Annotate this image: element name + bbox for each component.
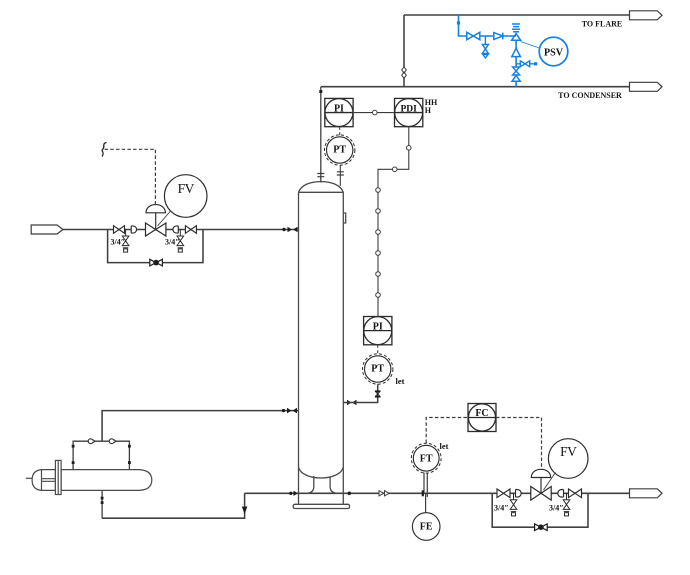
check symbols: reboiler top pipe <box>88 439 95 444</box>
wire: reboiler return riser <box>102 411 298 442</box>
pipe flag: to flare <box>630 11 663 20</box>
valve: blue angle lower <box>512 76 520 82</box>
valve: blue angle below PSV <box>512 48 521 56</box>
wire: PSV callout <box>521 42 540 49</box>
reducer: bottoms downstream D <box>558 490 564 498</box>
wire: PI to PDI link <box>353 112 394 114</box>
node: blue branch end cap <box>534 62 537 65</box>
instrument: FE flow element <box>412 513 440 541</box>
svg-text:H: H <box>425 106 432 115</box>
reducer: bottoms upstream D <box>516 490 522 498</box>
svg-text:let: let <box>396 376 405 386</box>
wire: FV bottoms callout <box>544 473 556 491</box>
wire: reboiler top nozzles and pipe <box>73 441 129 469</box>
valve: blue gate on branch <box>467 32 480 39</box>
node: circles on PDI link <box>376 146 411 298</box>
drain valve: feed 3/4 downstream <box>177 230 184 253</box>
wire: reboiler bottom nozzle <box>101 490 103 518</box>
valve: bottoms gate downstream <box>569 489 582 498</box>
blue relief piping <box>459 15 517 87</box>
svg-text:TO FLARE: TO FLARE <box>582 20 623 29</box>
drain valve: feed 3/4 upstream <box>122 230 129 253</box>
pipe flag: bottoms outlet <box>630 489 663 498</box>
valve: bottoms bypass globe (closed) <box>535 524 548 531</box>
svg-text:FT: FT <box>420 453 433 464</box>
wire: FV signal dashed <box>103 149 155 204</box>
nozzle marks: feed entry <box>282 227 297 233</box>
svg-text:3/4″: 3/4″ <box>111 238 126 247</box>
orifice crossing: FT tap lines <box>424 473 427 514</box>
wire: FT-FC-FV dashed signal <box>426 418 541 468</box>
drain valve: blue branch vent <box>482 36 488 58</box>
check valve: blue branch <box>494 33 503 40</box>
flow arrow: down to reboiler <box>242 507 248 515</box>
pipe flag: feed inlet <box>31 225 63 234</box>
wire: condenser header <box>321 86 629 88</box>
valve: feed bypass globe (closed) <box>150 259 163 266</box>
nozzle marks: bottoms line through skirt right <box>348 492 352 496</box>
wire: column overhead riser <box>320 87 322 183</box>
flange marks: reboiler nozzles <box>72 445 131 504</box>
svg-text:FE: FE <box>420 522 433 533</box>
spec break: double tick below lower PT <box>375 391 381 397</box>
svg-text:PDI: PDI <box>400 104 417 114</box>
instrument: PI upper (shared display) <box>325 98 353 126</box>
drain valve: bottoms 3/4 upstream <box>510 493 517 516</box>
instrument: FV bubble top <box>164 175 207 218</box>
instrument: PT upper transmitter <box>325 135 355 165</box>
instrument: FV bubble bottom <box>548 439 588 479</box>
nozzle marks: PT lower nozzle <box>347 400 357 405</box>
node: circle on PI-PDI link <box>373 110 378 115</box>
wire: top PT nozzle <box>339 165 341 186</box>
svg-text:3/4″: 3/4″ <box>494 504 509 513</box>
instrument: PDI (shared display) <box>395 98 423 126</box>
wire: PDI down link <box>378 127 409 317</box>
wire: PI-PT dashed link upper <box>339 127 341 136</box>
svg-text:3/4″: 3/4″ <box>165 238 180 247</box>
svg-text:PI: PI <box>373 321 383 332</box>
wire: blue branch from flare line <box>459 15 517 36</box>
vessel: distillation column C-1 <box>293 182 349 509</box>
spec break: double diamond on flare leg <box>402 67 407 79</box>
nozzle marks: bottoms line through skirt left <box>289 491 298 496</box>
valve: blue gate vertical <box>513 67 520 75</box>
svg-text:PT: PT <box>333 145 346 156</box>
reducer: feed downstream D <box>173 226 178 233</box>
drain valve: bottoms 3/4 downstream <box>563 493 570 516</box>
svg-text:let: let <box>440 441 449 451</box>
pipe flag: to condenser <box>630 82 663 91</box>
signal continuation squiggle <box>102 143 107 157</box>
wire: PI-PT dashed link lower <box>377 345 379 355</box>
wire: bottoms bypass <box>492 493 588 527</box>
valve: feed gate valve downstream <box>185 226 196 234</box>
node: junction at overhead riser <box>319 90 322 93</box>
flange pair: overhead riser nozzle <box>317 174 324 177</box>
flange pair: top PT nozzle <box>337 172 344 175</box>
instrument: FT transmitter <box>411 443 441 473</box>
wire: feed line <box>63 229 299 231</box>
svg-text:TO CONDENSER: TO CONDENSER <box>558 91 622 100</box>
instrument: PI lower (shared display) <box>364 317 392 345</box>
wire: PT lower to column nozzle <box>343 384 377 402</box>
actuator: FV feed diaphragm <box>146 205 165 230</box>
node: blue junction square <box>457 21 460 24</box>
flow arrows: bottoms line <box>379 491 389 496</box>
nozzle marks: reboiler return entry <box>282 408 297 414</box>
actuator: FV bottoms diaphragm <box>531 469 550 493</box>
valve: bottoms gate upstream <box>497 489 510 498</box>
instrument: PSV bubble <box>539 37 568 66</box>
wire: reboiler inlet line <box>102 493 245 518</box>
valve: feed gate valve upstream <box>114 226 125 234</box>
control valve: FV feed <box>146 223 166 236</box>
svg-text:FC: FC <box>475 408 488 419</box>
wire: blue PSV vertical <box>515 40 517 87</box>
control valve: FV bottoms <box>531 487 551 501</box>
wire: feed bypass <box>108 230 203 263</box>
wire: bottoms line <box>245 492 629 494</box>
wire: line from flare header to condenser header <box>403 15 405 87</box>
svg-text:FV: FV <box>178 181 195 196</box>
wire: FV callout <box>158 211 172 227</box>
instrument: PT lower transmitter <box>363 354 393 384</box>
relief valve: PSV spring <box>512 24 521 40</box>
wire: flare header <box>404 14 629 16</box>
svg-text:PSV: PSV <box>544 48 564 59</box>
heat exchanger: reboiler shell <box>26 460 152 494</box>
svg-text:3/4″: 3/4″ <box>549 504 564 513</box>
svg-text:PI: PI <box>334 103 344 114</box>
instrument: FC controller <box>468 404 496 432</box>
svg-text:PT: PT <box>371 364 384 375</box>
wire: blue side branch with valve <box>516 61 534 67</box>
svg-text:FV: FV <box>560 444 577 459</box>
reducer: feed upstream D <box>131 226 136 233</box>
